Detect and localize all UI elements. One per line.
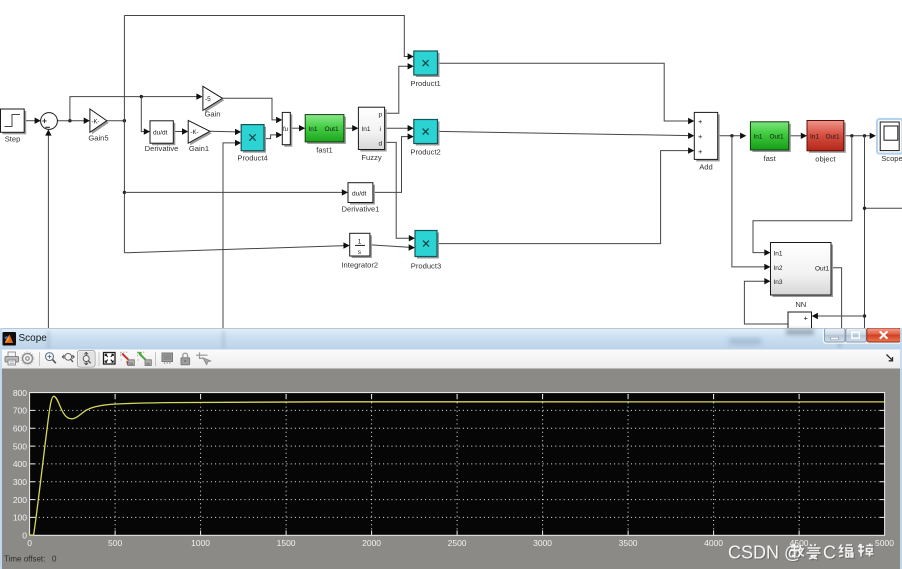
block object bbox=[807, 121, 846, 164]
svg-text:Product4: Product4 bbox=[237, 154, 267, 163]
svg-text:Step: Step bbox=[5, 135, 21, 144]
wire branch up to Gain bbox=[70, 93, 203, 120]
svg-text:p: p bbox=[379, 111, 383, 118]
wire feedback to NN In1 bbox=[753, 136, 852, 256]
block Step bbox=[1, 109, 27, 144]
wire Product1 to Add in1 bbox=[438, 63, 695, 124]
svg-text:NN: NN bbox=[795, 300, 806, 309]
svg-text:In1: In1 bbox=[810, 134, 819, 141]
svg-text:object: object bbox=[815, 155, 836, 164]
wire sum1 out to NN In3 bbox=[744, 278, 788, 324]
svg-text:2500: 2500 bbox=[448, 538, 467, 548]
svg-text:500: 500 bbox=[13, 441, 27, 451]
wire riser to Product4 in2 bbox=[223, 140, 241, 328]
block NN subsystem bbox=[771, 243, 834, 310]
svg-text:fast: fast bbox=[763, 154, 776, 163]
svg-text:Product2: Product2 bbox=[410, 148, 440, 157]
svg-text:1000: 1000 bbox=[191, 538, 210, 548]
wire vertical bus x=124 bbox=[123, 16, 126, 253]
svg-text:Fuzzy: Fuzzy bbox=[361, 153, 381, 162]
product Product2 bbox=[410, 120, 440, 157]
svg-text:300: 300 bbox=[13, 477, 27, 487]
wire sum to Gain5 bbox=[57, 118, 90, 124]
svg-text:Out1: Out1 bbox=[815, 266, 829, 273]
svg-text:CSDN @: CSDN @ bbox=[728, 543, 802, 563]
svg-text:5000: 5000 bbox=[875, 538, 894, 548]
svg-text:3000: 3000 bbox=[533, 538, 552, 548]
scope axes bbox=[30, 393, 885, 536]
wire Derivative1 to Product2 in2 bbox=[373, 133, 414, 192]
svg-text:du/dt: du/dt bbox=[352, 191, 367, 198]
wire branch down to Derivative bbox=[141, 97, 150, 135]
wire step to sum bbox=[24, 118, 41, 124]
wire Product3 to Add in3 bbox=[437, 147, 694, 243]
svg-text:4000: 4000 bbox=[704, 538, 723, 548]
svg-text:Out1: Out1 bbox=[325, 126, 339, 133]
block Derivative1 bbox=[342, 183, 380, 214]
svg-text:d: d bbox=[379, 140, 383, 147]
wire Fuzzy d to Product3 in1 bbox=[385, 142, 415, 241]
gain Gain bbox=[203, 86, 225, 118]
svg-text:Derivative: Derivative bbox=[145, 144, 179, 153]
svg-text:fu: fu bbox=[283, 127, 288, 133]
svg-text:100: 100 bbox=[13, 513, 27, 523]
wire top loop to Product1 in1 bbox=[124, 16, 413, 60]
wire Gain1 to Product4 in1 bbox=[210, 129, 241, 135]
block Add bbox=[694, 112, 719, 171]
svg-text:+: + bbox=[804, 314, 809, 323]
svg-text:Out1: Out1 bbox=[826, 134, 840, 141]
wire Fuzzy p to Product1 in2 bbox=[385, 63, 414, 113]
svg-text:Gain1: Gain1 bbox=[189, 144, 209, 153]
block sum1 (partially hidden) bbox=[788, 312, 812, 332]
svg-text:Product1: Product1 bbox=[410, 79, 440, 88]
svg-text:200: 200 bbox=[13, 495, 27, 505]
svg-text:3500: 3500 bbox=[619, 538, 638, 548]
block Derivative bbox=[145, 121, 179, 153]
svg-text:-K-: -K- bbox=[92, 119, 100, 125]
svg-text:Out1: Out1 bbox=[770, 134, 784, 141]
svg-text:700: 700 bbox=[13, 406, 27, 416]
wire fast1 to Fuzzy bbox=[344, 125, 359, 131]
svg-text:-K-: -K- bbox=[191, 130, 199, 136]
block Fuzzy bbox=[358, 107, 386, 162]
svg-text:Add: Add bbox=[699, 163, 713, 172]
svg-text:1: 1 bbox=[358, 239, 362, 246]
svg-text:i: i bbox=[380, 126, 381, 133]
wire fu to fast1 bbox=[290, 125, 305, 131]
svg-text:In2: In2 bbox=[774, 265, 783, 272]
svg-text:400: 400 bbox=[13, 459, 27, 469]
svg-text:Derivative1: Derivative1 bbox=[342, 205, 380, 214]
wire Add to fast bbox=[718, 133, 747, 139]
scope ticks bbox=[30, 394, 885, 535]
wire Add branch to NN In2 bbox=[732, 136, 771, 270]
wire right feedback bus bbox=[863, 136, 902, 330]
block Scope (selected) bbox=[877, 119, 902, 163]
svg-text:+: + bbox=[698, 132, 703, 141]
wire Product4 out to fu in2 bbox=[264, 132, 282, 139]
svg-text:+: + bbox=[698, 147, 703, 156]
svg-text:Gain5: Gain5 bbox=[88, 134, 108, 143]
wire Gain5 output to vertical bus bbox=[107, 119, 126, 122]
wire feedback to sum bottom bbox=[45, 129, 51, 330]
svg-text:C: C bbox=[823, 543, 836, 563]
svg-text:Product3: Product3 bbox=[411, 262, 441, 271]
block fast bbox=[750, 122, 790, 163]
wire into sum1 right input bbox=[812, 313, 865, 319]
watermark CSDN bbox=[728, 543, 875, 564]
product Product1 bbox=[410, 51, 440, 88]
svg-text:600: 600 bbox=[13, 424, 27, 434]
product Product3 bbox=[411, 231, 441, 271]
svg-text:+: + bbox=[698, 117, 703, 126]
wire Product2 to Add in2 bbox=[438, 131, 695, 139]
svg-text:0: 0 bbox=[27, 538, 32, 548]
wire bus to Derivative1 bbox=[124, 189, 348, 195]
svg-text:In1: In1 bbox=[309, 126, 318, 133]
svg-text:0: 0 bbox=[52, 555, 57, 564]
gain Gain1 bbox=[188, 120, 212, 152]
wire Gain to fu in1 bbox=[222, 98, 282, 123]
svg-text:fast1: fast1 bbox=[316, 146, 332, 155]
product Product4 bbox=[237, 125, 267, 163]
gain Gain5 bbox=[88, 109, 108, 143]
block fast1 bbox=[305, 115, 346, 155]
svg-text:Scope: Scope bbox=[881, 154, 902, 163]
scope x labels bbox=[27, 538, 894, 548]
scope signal curve bbox=[30, 396, 885, 535]
wire Derivative to Gain1 bbox=[173, 128, 188, 134]
svg-text:In1: In1 bbox=[754, 134, 763, 141]
toolbar icons bbox=[5, 351, 893, 368]
svg-text:In3: In3 bbox=[774, 279, 783, 286]
svg-text:In1: In1 bbox=[774, 250, 783, 257]
wire object to Scope bbox=[844, 133, 876, 139]
sum block bbox=[41, 113, 58, 130]
wire Fuzzy i to Product2 in1 bbox=[385, 125, 414, 131]
svg-text:800: 800 bbox=[13, 388, 27, 398]
svg-text:Gain: Gain bbox=[204, 110, 220, 119]
svg-text:du/dt: du/dt bbox=[153, 130, 168, 137]
scope y labels bbox=[13, 388, 27, 541]
svg-text:In1: In1 bbox=[362, 126, 371, 133]
block Integrator2 bbox=[341, 233, 378, 269]
svg-text:Time offset:: Time offset: bbox=[4, 555, 45, 564]
wire NN Out1 down bbox=[831, 268, 842, 330]
wire bus to Integrator2 bbox=[124, 242, 349, 252]
svg-text:Integrator2: Integrator2 bbox=[341, 261, 378, 270]
svg-text:500: 500 bbox=[108, 538, 122, 548]
block fu (Fcn) bbox=[282, 112, 292, 146]
scope grid bbox=[35, 394, 881, 530]
svg-text:-5: -5 bbox=[205, 96, 211, 103]
svg-text:2000: 2000 bbox=[362, 538, 381, 548]
svg-text:1500: 1500 bbox=[277, 538, 296, 548]
wire fast to object bbox=[789, 133, 807, 139]
wire Integrator2 to Product3 in2 bbox=[370, 244, 415, 250]
